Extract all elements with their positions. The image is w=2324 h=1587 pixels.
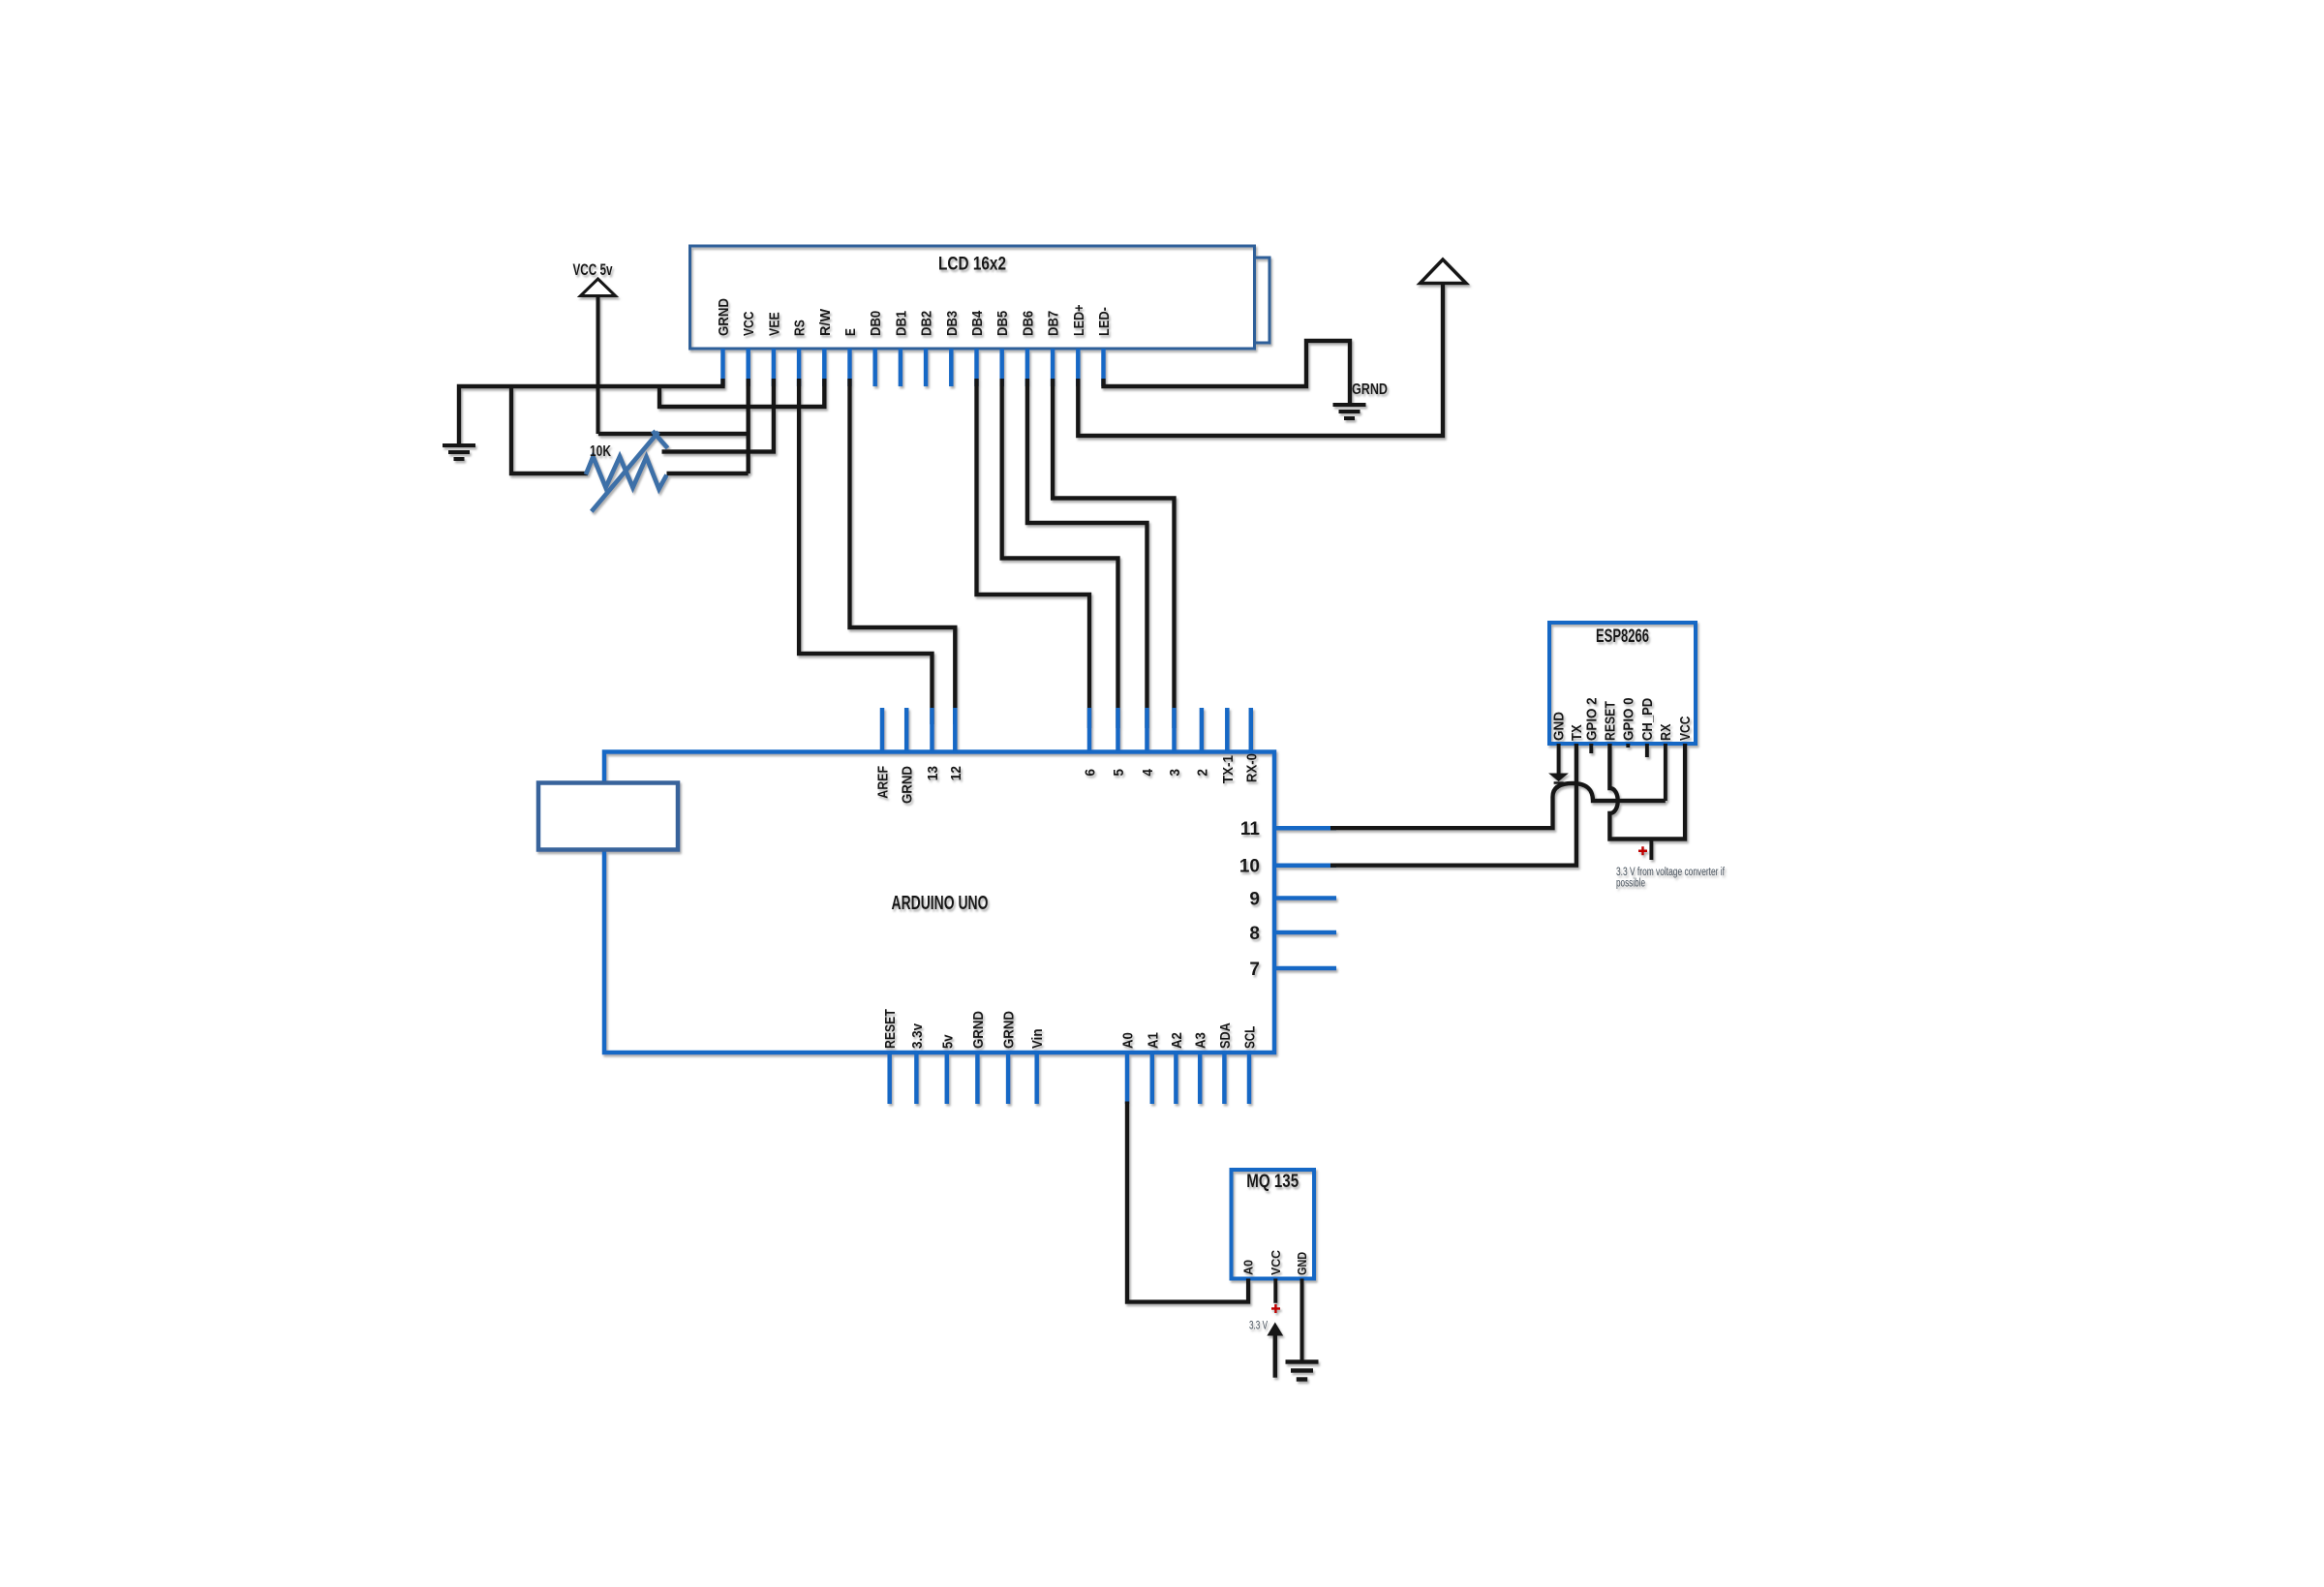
wire potentiometer right terminal to VCC bbox=[667, 472, 749, 475]
svg-text:A0: A0 bbox=[1120, 1032, 1137, 1049]
svg-text:10K: 10K bbox=[590, 443, 611, 460]
svg-text:LCD 16x2: LCD 16x2 bbox=[938, 255, 1006, 275]
svg-text:6: 6 bbox=[1083, 769, 1099, 777]
svg-text:3.3v: 3.3v bbox=[909, 1022, 926, 1049]
svg-text:ARDUINO UNO: ARDUINO UNO bbox=[892, 893, 989, 914]
wire LCD VCC down bbox=[747, 379, 750, 473]
ground symbol (left) bbox=[443, 445, 475, 459]
MQ 135 box bbox=[1232, 1170, 1315, 1279]
Arduino top pin stub 12 bbox=[953, 708, 958, 752]
potentiometer R1 10K bbox=[586, 457, 667, 490]
LCD pin stub DB0 bbox=[872, 349, 877, 386]
svg-text:R/W: R/W bbox=[817, 308, 834, 336]
svg-text:GND: GND bbox=[1296, 1252, 1309, 1275]
svg-text:GRND: GRND bbox=[970, 1011, 987, 1049]
svg-text:GRND: GRND bbox=[716, 298, 732, 336]
VCC supply symbol (right) bbox=[1421, 259, 1467, 284]
svg-text:RX-0: RX-0 bbox=[1243, 753, 1260, 782]
plus sign (MQ VCC 3.3V) bbox=[1271, 1304, 1280, 1313]
svg-text:GPIO 2: GPIO 2 bbox=[1583, 697, 1600, 741]
LCD pin stub DB2 bbox=[924, 349, 929, 386]
LCD pin stub DB4 bbox=[974, 349, 979, 386]
wire ESP RESET to VCC (hop over RX wire) bbox=[1609, 744, 1685, 839]
Arduino right pin stub 11 bbox=[1274, 826, 1336, 831]
svg-text:10: 10 bbox=[1239, 857, 1260, 877]
LCD pin stub R/W bbox=[822, 349, 827, 386]
ESP8266 CH_PD stub bbox=[1645, 744, 1649, 757]
wire ESP TX to Arduino 10 bbox=[1330, 744, 1576, 866]
ground symbol (right, GRND) bbox=[1333, 405, 1366, 418]
potentiometer wiper arrow bbox=[592, 432, 658, 511]
Arduino right pin stub 9 bbox=[1274, 896, 1336, 900]
svg-text:GRND: GRND bbox=[1001, 1011, 1018, 1049]
svg-text:MQ 135: MQ 135 bbox=[1246, 1172, 1299, 1192]
Arduino bottom pin stub RESET bbox=[887, 1053, 892, 1104]
svg-text:3: 3 bbox=[1167, 769, 1183, 777]
svg-text:A2: A2 bbox=[1169, 1032, 1185, 1049]
svg-text:DB5: DB5 bbox=[994, 311, 1011, 336]
svg-text:GRND: GRND bbox=[1352, 381, 1388, 398]
LCD pin stub VCC bbox=[746, 349, 750, 386]
LCD pin stub LED+ bbox=[1076, 349, 1081, 386]
LCD pin stub E bbox=[847, 349, 852, 386]
VCC 5v supply symbol bbox=[581, 279, 616, 296]
svg-text:DB6: DB6 bbox=[1020, 311, 1036, 336]
svg-text:A0: A0 bbox=[1242, 1260, 1256, 1275]
Arduino top pin stub 2 bbox=[1200, 708, 1205, 752]
wire MQ A0 to Arduino A0 bbox=[1127, 1102, 1248, 1302]
Arduino top pin stub AREF bbox=[880, 708, 885, 752]
Arduino top pin stub GRND bbox=[904, 708, 909, 752]
wire LCD E to Arduino 12 bbox=[850, 379, 956, 724]
svg-text:GRND: GRND bbox=[900, 766, 916, 804]
svg-text:VCC: VCC bbox=[1269, 1250, 1283, 1275]
wire Arduino 11 to ESP RX (hop over TX) bbox=[1330, 783, 1666, 828]
wire 3.3V supply stub bbox=[1649, 839, 1653, 861]
svg-text:VEE: VEE bbox=[766, 312, 782, 336]
wire LCD LED- to GRND bbox=[1104, 341, 1351, 403]
svg-text:DB1: DB1 bbox=[893, 311, 909, 336]
plus sign (3.3V supply) bbox=[1638, 846, 1647, 855]
svg-text:7: 7 bbox=[1249, 960, 1260, 980]
LCD pin stub DB5 bbox=[999, 349, 1004, 386]
svg-text:13: 13 bbox=[925, 766, 941, 780]
Arduino bottom pin stub Vin bbox=[1034, 1053, 1039, 1104]
svg-text:DB7: DB7 bbox=[1046, 311, 1062, 336]
svg-text:2: 2 bbox=[1194, 769, 1210, 777]
Arduino bottom pin stub SDA bbox=[1222, 1053, 1227, 1104]
Arduino right pin stub 8 bbox=[1274, 931, 1336, 935]
wire VCC 5v to LCD VCC bbox=[598, 432, 749, 436]
ESP8266 GPIO 2 stub bbox=[1589, 744, 1593, 753]
Arduino top pin stub 5 bbox=[1116, 708, 1120, 752]
svg-text:LED-: LED- bbox=[1096, 307, 1113, 336]
wire LCD DB6 to Arduino 4 bbox=[1027, 379, 1147, 728]
Arduino top pin stub 3 bbox=[1172, 708, 1177, 752]
svg-text:11: 11 bbox=[1240, 819, 1261, 839]
LCD right-side notch bbox=[1255, 258, 1270, 343]
Arduino top pin stub 6 bbox=[1087, 708, 1092, 752]
Arduino bottom pin stub A2 bbox=[1174, 1053, 1178, 1104]
svg-text:RESET: RESET bbox=[882, 1009, 899, 1049]
svg-text:CH_PD: CH_PD bbox=[1639, 698, 1656, 741]
svg-text:VCC: VCC bbox=[1677, 716, 1694, 741]
svg-text:DB4: DB4 bbox=[969, 310, 986, 336]
svg-text:DB2: DB2 bbox=[919, 311, 935, 336]
Arduino top pin stub RX-0 bbox=[1249, 708, 1254, 752]
svg-text:5v: 5v bbox=[939, 1034, 956, 1049]
Arduino top pin stub TX-1 bbox=[1225, 708, 1230, 752]
Arduino USB connector bbox=[538, 783, 678, 850]
wire LCD DB4 to Arduino 6 bbox=[977, 379, 1090, 728]
wire LCD RS to Arduino 13 bbox=[799, 379, 932, 724]
svg-text:A3: A3 bbox=[1193, 1032, 1209, 1049]
LCD pin stub DB3 bbox=[949, 349, 954, 386]
ESP8266 box bbox=[1549, 623, 1696, 744]
svg-text:VCC 5v: VCC 5v bbox=[573, 260, 613, 279]
Arduino right pin stub 7 bbox=[1274, 966, 1336, 971]
wire LCD LED+ to VCC arrow bbox=[1078, 284, 1443, 437]
svg-text:SCL: SCL bbox=[1242, 1026, 1259, 1049]
Arduino top pin stub 4 bbox=[1145, 708, 1149, 752]
svg-text:9: 9 bbox=[1249, 890, 1260, 910]
svg-text:SDA: SDA bbox=[1217, 1022, 1234, 1049]
ESP8266 GPIO 0 stub bbox=[1626, 744, 1630, 748]
LCD pin stub DB7 bbox=[1051, 349, 1055, 386]
Arduino bottom pin stub GRND bbox=[1006, 1053, 1011, 1104]
wire LCD DB5 to Arduino 5 bbox=[1002, 379, 1118, 728]
svg-text:E: E bbox=[842, 328, 859, 336]
svg-text:TX-1: TX-1 bbox=[1220, 755, 1237, 783]
svg-text:GND: GND bbox=[1551, 712, 1568, 741]
LCD pin stub VEE bbox=[772, 349, 777, 386]
svg-text:Vin: Vin bbox=[1029, 1029, 1046, 1050]
Arduino UNO box bbox=[604, 752, 1274, 1053]
LCD pin stub GRND bbox=[720, 349, 725, 386]
Arduino bottom pin stub 3.3v bbox=[914, 1053, 919, 1104]
svg-text:8: 8 bbox=[1249, 924, 1260, 944]
svg-text:ESP8266: ESP8266 bbox=[1596, 626, 1649, 647]
Arduino right pin stub 10 bbox=[1274, 863, 1336, 868]
LCD pin stub DB6 bbox=[1025, 349, 1030, 386]
wire MQ GND down bbox=[1300, 1279, 1304, 1361]
svg-text:3.3 V from voltage converter i: 3.3 V from voltage converter if bbox=[1616, 867, 1726, 878]
svg-text:DB0: DB0 bbox=[868, 311, 884, 336]
svg-text:DB3: DB3 bbox=[944, 311, 961, 336]
Arduino top pin stub 13 bbox=[930, 708, 934, 752]
Arduino bottom pin stub A3 bbox=[1198, 1053, 1203, 1104]
svg-text:VCC: VCC bbox=[741, 311, 757, 336]
wire ESP RX down bbox=[1664, 744, 1667, 801]
svg-text:AREF: AREF bbox=[875, 766, 892, 799]
Arduino bottom pin stub SCL bbox=[1247, 1053, 1252, 1104]
wire MQ VCC stub bbox=[1273, 1279, 1277, 1303]
svg-text:RS: RS bbox=[792, 320, 809, 336]
svg-text:RESET: RESET bbox=[1602, 701, 1618, 741]
wire LCD GRND to ground bbox=[459, 379, 723, 443]
Arduino bottom pin stub A0 bbox=[1125, 1053, 1130, 1104]
svg-text:possible: possible bbox=[1616, 878, 1645, 890]
LCD 16x2 module box bbox=[690, 246, 1255, 349]
wire R/W to ground line bbox=[659, 379, 824, 407]
Arduino bottom pin stub A1 bbox=[1150, 1053, 1155, 1104]
LCD pin stub DB1 bbox=[899, 349, 903, 386]
LCD pin stub RS bbox=[797, 349, 802, 386]
ground symbol (MQ) bbox=[1286, 1362, 1319, 1380]
Arduino bottom pin stub GRND bbox=[975, 1053, 980, 1104]
ESP8266 GND pin wire and signal-ground arrow bbox=[1557, 744, 1561, 774]
svg-text:5: 5 bbox=[1111, 769, 1127, 777]
svg-text:GPIO 0: GPIO 0 bbox=[1620, 697, 1636, 741]
svg-text:LED+: LED+ bbox=[1071, 304, 1087, 336]
LCD pin stub LED- bbox=[1101, 349, 1106, 386]
3.3V supply up-arrow bbox=[1273, 1334, 1278, 1378]
svg-text:12: 12 bbox=[948, 766, 964, 780]
svg-text:3.3 V: 3.3 V bbox=[1249, 1320, 1268, 1331]
wire LCD VEE to potentiometer wiper bbox=[662, 379, 774, 452]
wire ground line to potentiometer left terminal bbox=[511, 386, 588, 473]
Arduino bottom pin stub 5v bbox=[945, 1053, 950, 1104]
wire LCD DB7 to Arduino 3 bbox=[1053, 379, 1174, 728]
svg-text:4: 4 bbox=[1140, 768, 1156, 776]
svg-text:RX: RX bbox=[1658, 724, 1674, 742]
svg-text:A1: A1 bbox=[1145, 1032, 1161, 1049]
